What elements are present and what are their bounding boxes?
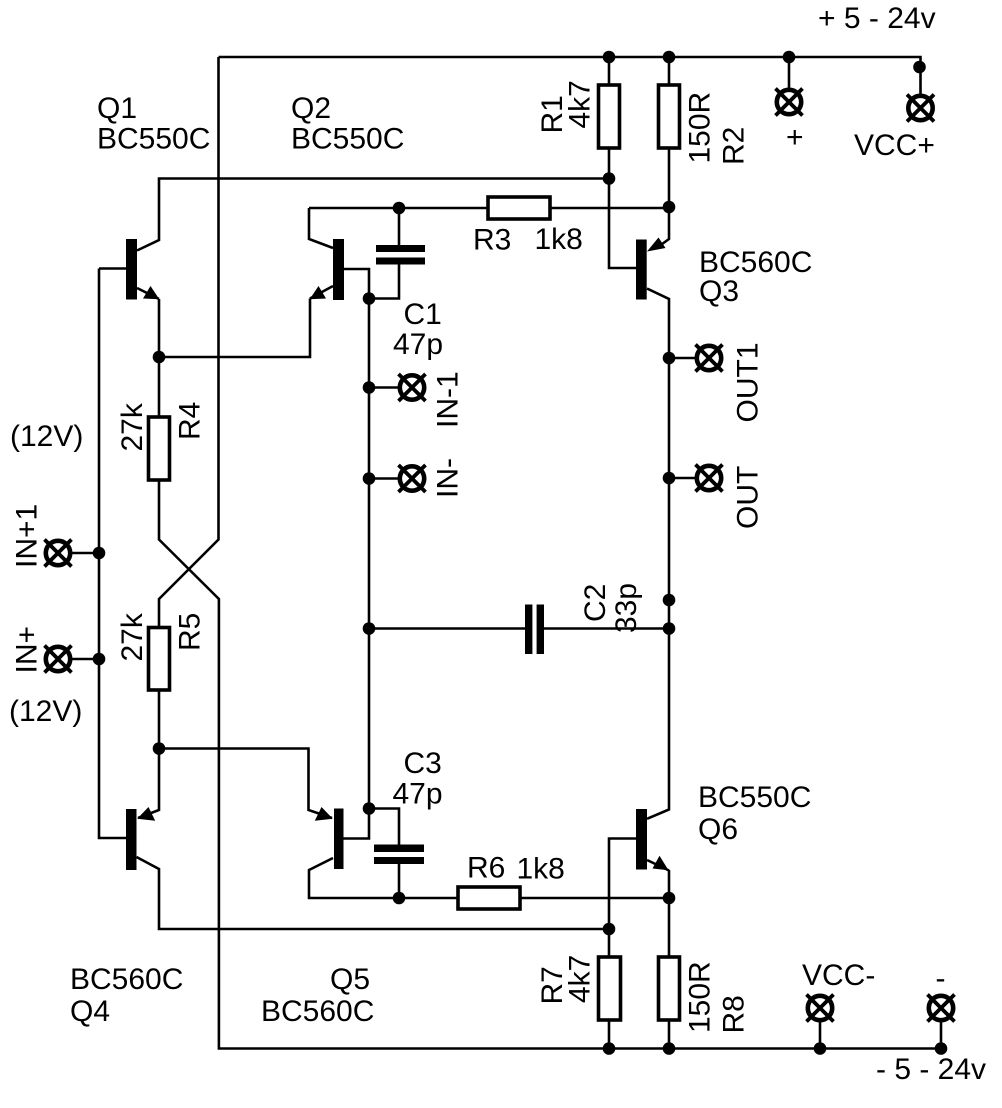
svg-text:Q1: Q1	[97, 92, 137, 125]
svg-text:Q6: Q6	[698, 813, 738, 846]
svg-text:27k: 27k	[116, 402, 149, 451]
svg-text:R2: R2	[718, 127, 751, 165]
svg-text:C3: C3	[404, 747, 442, 780]
svg-text:R8: R8	[718, 995, 751, 1033]
svg-text:IN+: IN+	[11, 626, 44, 674]
svg-text:Q5: Q5	[330, 963, 370, 996]
svg-text:(12V): (12V)	[9, 695, 82, 728]
svg-text:1k8: 1k8	[535, 223, 583, 256]
svg-text:BC560C: BC560C	[70, 963, 183, 996]
svg-text:R3: R3	[473, 224, 511, 257]
svg-text:C2: C2	[579, 584, 612, 622]
svg-text:33p: 33p	[610, 583, 643, 633]
svg-text:IN-: IN-	[432, 458, 465, 498]
svg-text:IN+1: IN+1	[11, 504, 44, 568]
svg-text:150R: 150R	[684, 92, 717, 164]
svg-text:BC550C: BC550C	[698, 781, 811, 814]
svg-text:+ 5 - 24v: + 5 - 24v	[818, 2, 936, 35]
svg-text:- 5 - 24v: - 5 - 24v	[876, 1053, 986, 1086]
svg-text:27k: 27k	[116, 612, 149, 661]
svg-text:-: -	[936, 962, 946, 995]
svg-text:BC560C: BC560C	[261, 995, 374, 1028]
svg-text:C1: C1	[404, 298, 442, 331]
svg-text:4k7: 4k7	[564, 80, 597, 128]
svg-text:47p: 47p	[393, 778, 443, 811]
svg-text:R4: R4	[174, 402, 207, 440]
svg-text:150R: 150R	[684, 961, 717, 1033]
svg-text:IN-1: IN-1	[432, 371, 465, 428]
svg-text:+: +	[786, 121, 804, 154]
svg-text:Q4: Q4	[70, 995, 110, 1028]
svg-text:47p: 47p	[393, 328, 443, 361]
svg-text:1k8: 1k8	[517, 853, 565, 886]
svg-text:VCC-: VCC-	[802, 959, 875, 992]
svg-text:OUT1: OUT1	[732, 342, 765, 422]
svg-text:(12V): (12V)	[10, 420, 83, 453]
svg-text:VCC+: VCC+	[854, 129, 935, 162]
svg-text:Q2: Q2	[291, 92, 331, 125]
svg-text:BC550C: BC550C	[291, 123, 404, 156]
svg-text:Q3: Q3	[699, 275, 739, 308]
svg-text:BC550C: BC550C	[97, 123, 210, 156]
svg-text:4k7: 4k7	[564, 955, 597, 1003]
svg-text:R5: R5	[174, 613, 207, 651]
svg-text:R6: R6	[467, 852, 505, 885]
svg-text:OUT: OUT	[732, 466, 765, 529]
